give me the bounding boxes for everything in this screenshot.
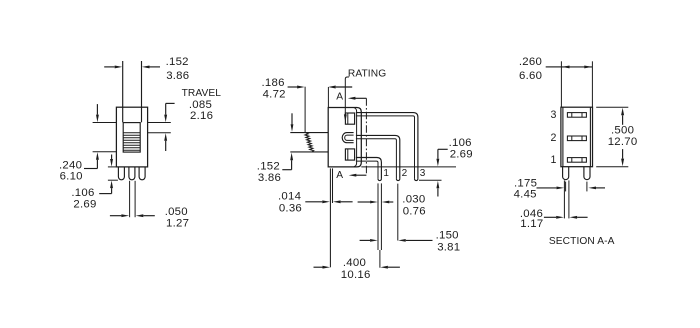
side view: middle contact (terminal 2, U-spring): [342, 133, 353, 143]
svg-text:.030: .030: [402, 193, 425, 205]
svg-text:.152: .152: [166, 56, 189, 68]
dimension .186 right-pointing arrow: [297, 86, 305, 89]
side view: upper contact (terminal 3): [345, 113, 354, 124]
svg-text:.500: .500: [611, 124, 634, 136]
svg-text:12.70: 12.70: [608, 136, 638, 148]
dimension .152/3.86 right arrow: [142, 66, 150, 69]
dimension .152/3.86 (side) down arrow: [291, 124, 294, 132]
dashed extension: pin front face (right line of .014): [332, 168, 334, 203]
svg-text:0.36: 0.36: [279, 202, 302, 214]
svg-text:A: A: [336, 170, 343, 181]
svg-text:4.45: 4.45: [514, 189, 537, 201]
svg-text:A: A: [336, 92, 343, 103]
svg-text:.240: .240: [59, 159, 82, 171]
pin center tick marks for .175: [565, 182, 567, 192]
left view: slider window: [123, 123, 140, 153]
section contact row 2 (middle): [567, 136, 586, 141]
svg-text:.186: .186: [262, 77, 285, 89]
svg-text:2: 2: [402, 168, 408, 179]
dimension .240/6.10 down arrow: [96, 115, 99, 123]
section pin A (left) round tip: [563, 167, 569, 180]
side view: actuator bottom edge with extension: [290, 151, 328, 153]
extension line window-top right of body: [148, 122, 171, 124]
TRAVEL dimension leader bracket: [166, 102, 175, 104]
svg-text:2.69: 2.69: [450, 149, 473, 161]
seating plane line extending right of body: [361, 166, 456, 168]
extension lines above section body: [560, 61, 562, 107]
svg-text:2.69: 2.69: [73, 199, 96, 211]
dimension .500/12.70 down arrow: [621, 159, 624, 167]
svg-text:4.72: 4.72: [263, 88, 286, 100]
TRAVEL dimension up arrow: [164, 133, 167, 141]
left view: switch body outline: [116, 107, 147, 167]
svg-text:6.60: 6.60: [519, 70, 542, 82]
dimension .152/3.86 (actuator width) left arrow: [115, 66, 123, 69]
extension line window-top left of body: [93, 122, 117, 124]
dimension .260 line with outward arrows: [561, 66, 592, 68]
svg-text:2: 2: [551, 132, 557, 144]
svg-text:SECTION A-A: SECTION A-A: [549, 236, 615, 247]
section body left inner wall: [562, 107, 564, 167]
section marker bottom: arrow pointing left with label A: [355, 174, 367, 176]
dimension .175/4.45 arrows: [537, 187, 557, 189]
side view: actuator top edge with extension: [290, 132, 328, 134]
dimension .240/6.10 up arrow with leader to text: [96, 152, 99, 160]
dimension .106/2.69 up arrow with leader: [110, 181, 113, 189]
svg-text:0.76: 0.76: [403, 206, 426, 218]
dimension .150/3.81 arrows: [370, 239, 378, 242]
dimension .186 left-pointing arrow: [328, 86, 336, 89]
svg-text:3.86: 3.86: [166, 70, 189, 82]
extension line below pin 2: [397, 184, 399, 241]
side view: lower contact (terminal 1): [345, 149, 354, 160]
dimension .400/10.16 arrows: [323, 266, 331, 269]
svg-text:.050: .050: [165, 206, 188, 218]
pin tip line right of pin 3: [419, 179, 442, 181]
side view: switch body outline with rounded back corners: [328, 108, 361, 167]
dimension .030/0.76 arrows: [370, 201, 378, 204]
dimension .050/1.27 left arrow: [121, 214, 129, 217]
dimension .260 leader line: [546, 66, 562, 68]
left view: pin 1 (left) with round tip: [118, 167, 124, 180]
dimension .046/1.17 arrows: [556, 216, 564, 219]
svg-text:6.10: 6.10: [60, 171, 83, 183]
svg-text:1.27: 1.27: [166, 218, 189, 230]
side view: actuator serrated front edge (zigzag): [305, 133, 314, 152]
svg-text:10.16: 10.16: [341, 269, 371, 281]
svg-text:3.86: 3.86: [258, 172, 281, 184]
section body outer outline: [561, 107, 593, 167]
dimension .500/12.70 up arrow: [621, 108, 624, 116]
extension of body bottom to left: [108, 166, 117, 168]
svg-text:3: 3: [551, 109, 557, 121]
svg-text:1: 1: [383, 168, 389, 179]
dimension .106 up arrow below pin tips: [436, 181, 439, 189]
left view: actuator stem left line: [122, 61, 124, 122]
svg-text:.150: .150: [436, 229, 459, 241]
extension line actuator tip: [304, 87, 306, 133]
svg-text:3.81: 3.81: [437, 241, 460, 253]
svg-text:.106: .106: [449, 137, 472, 149]
left view: actuator stem right line: [141, 61, 143, 122]
svg-text:RATING: RATING: [348, 69, 386, 80]
svg-text:1: 1: [551, 154, 557, 166]
dimension .050/1.27 right arrow: [136, 214, 144, 217]
svg-text:.106: .106: [71, 187, 94, 199]
section body right inner wall: [589, 107, 591, 167]
svg-text:.175: .175: [514, 177, 537, 189]
left view: slider knob hatch lines: [123, 132, 140, 134]
extension lines right of section body for .500: [596, 106, 628, 108]
pin A lead lines below: [563, 180, 565, 218]
extension lines below pin 1: [377, 183, 379, 250]
svg-text:.152: .152: [257, 161, 280, 173]
section contact row 1 (bottom): [567, 158, 586, 163]
extension line slider-top right of body: [148, 132, 171, 134]
dimension .152/3.86 (side) up arrow with leader: [290, 153, 293, 161]
svg-text:TRAVEL: TRAVEL: [182, 88, 222, 99]
svg-text:2.16: 2.16: [190, 110, 213, 122]
pin 1 right-angle lead: [356, 158, 382, 179]
extension line body front face top: [327, 87, 329, 107]
dimension .014/0.36 right arrow: [322, 200, 330, 203]
svg-text:.014: .014: [278, 190, 301, 202]
pin tip extension line left: [108, 179, 118, 181]
left view: pin 3 (right) with round tip: [139, 167, 145, 180]
svg-text:1.17: 1.17: [520, 218, 543, 230]
left view: pin 2 (middle) with round tip: [129, 167, 135, 180]
dimension .106/2.69 (right, pin protrusion) leader and down arrow: [438, 148, 448, 150]
side view: body inner back wall line: [354, 108, 357, 167]
section marker top: arrow pointing left with label A: [355, 97, 367, 99]
svg-text:3: 3: [420, 168, 426, 179]
section pin B (right) round tip: [584, 167, 590, 180]
left view: middle pin lead left line: [129, 181, 131, 217]
dashed extension: body front face below (left line of .014): [329, 168, 331, 267]
pin 3 right-angle lead (outer and inner lines, round tip): [356, 113, 418, 179]
pin 2 right-angle lead: [356, 135, 400, 179]
svg-text:.400: .400: [343, 257, 366, 269]
TRAVEL dimension down arrow: [164, 115, 167, 123]
svg-text:.260: .260: [519, 56, 542, 68]
section cutting plane line A-A (dash-dot): [365, 98, 367, 175]
left view: middle pin lead right line: [134, 181, 136, 217]
section contact row 3 (top): [567, 113, 586, 118]
dimension .106/2.69 (pin length) down arrow: [110, 159, 113, 167]
extension line window-bottom left of body: [93, 151, 117, 153]
